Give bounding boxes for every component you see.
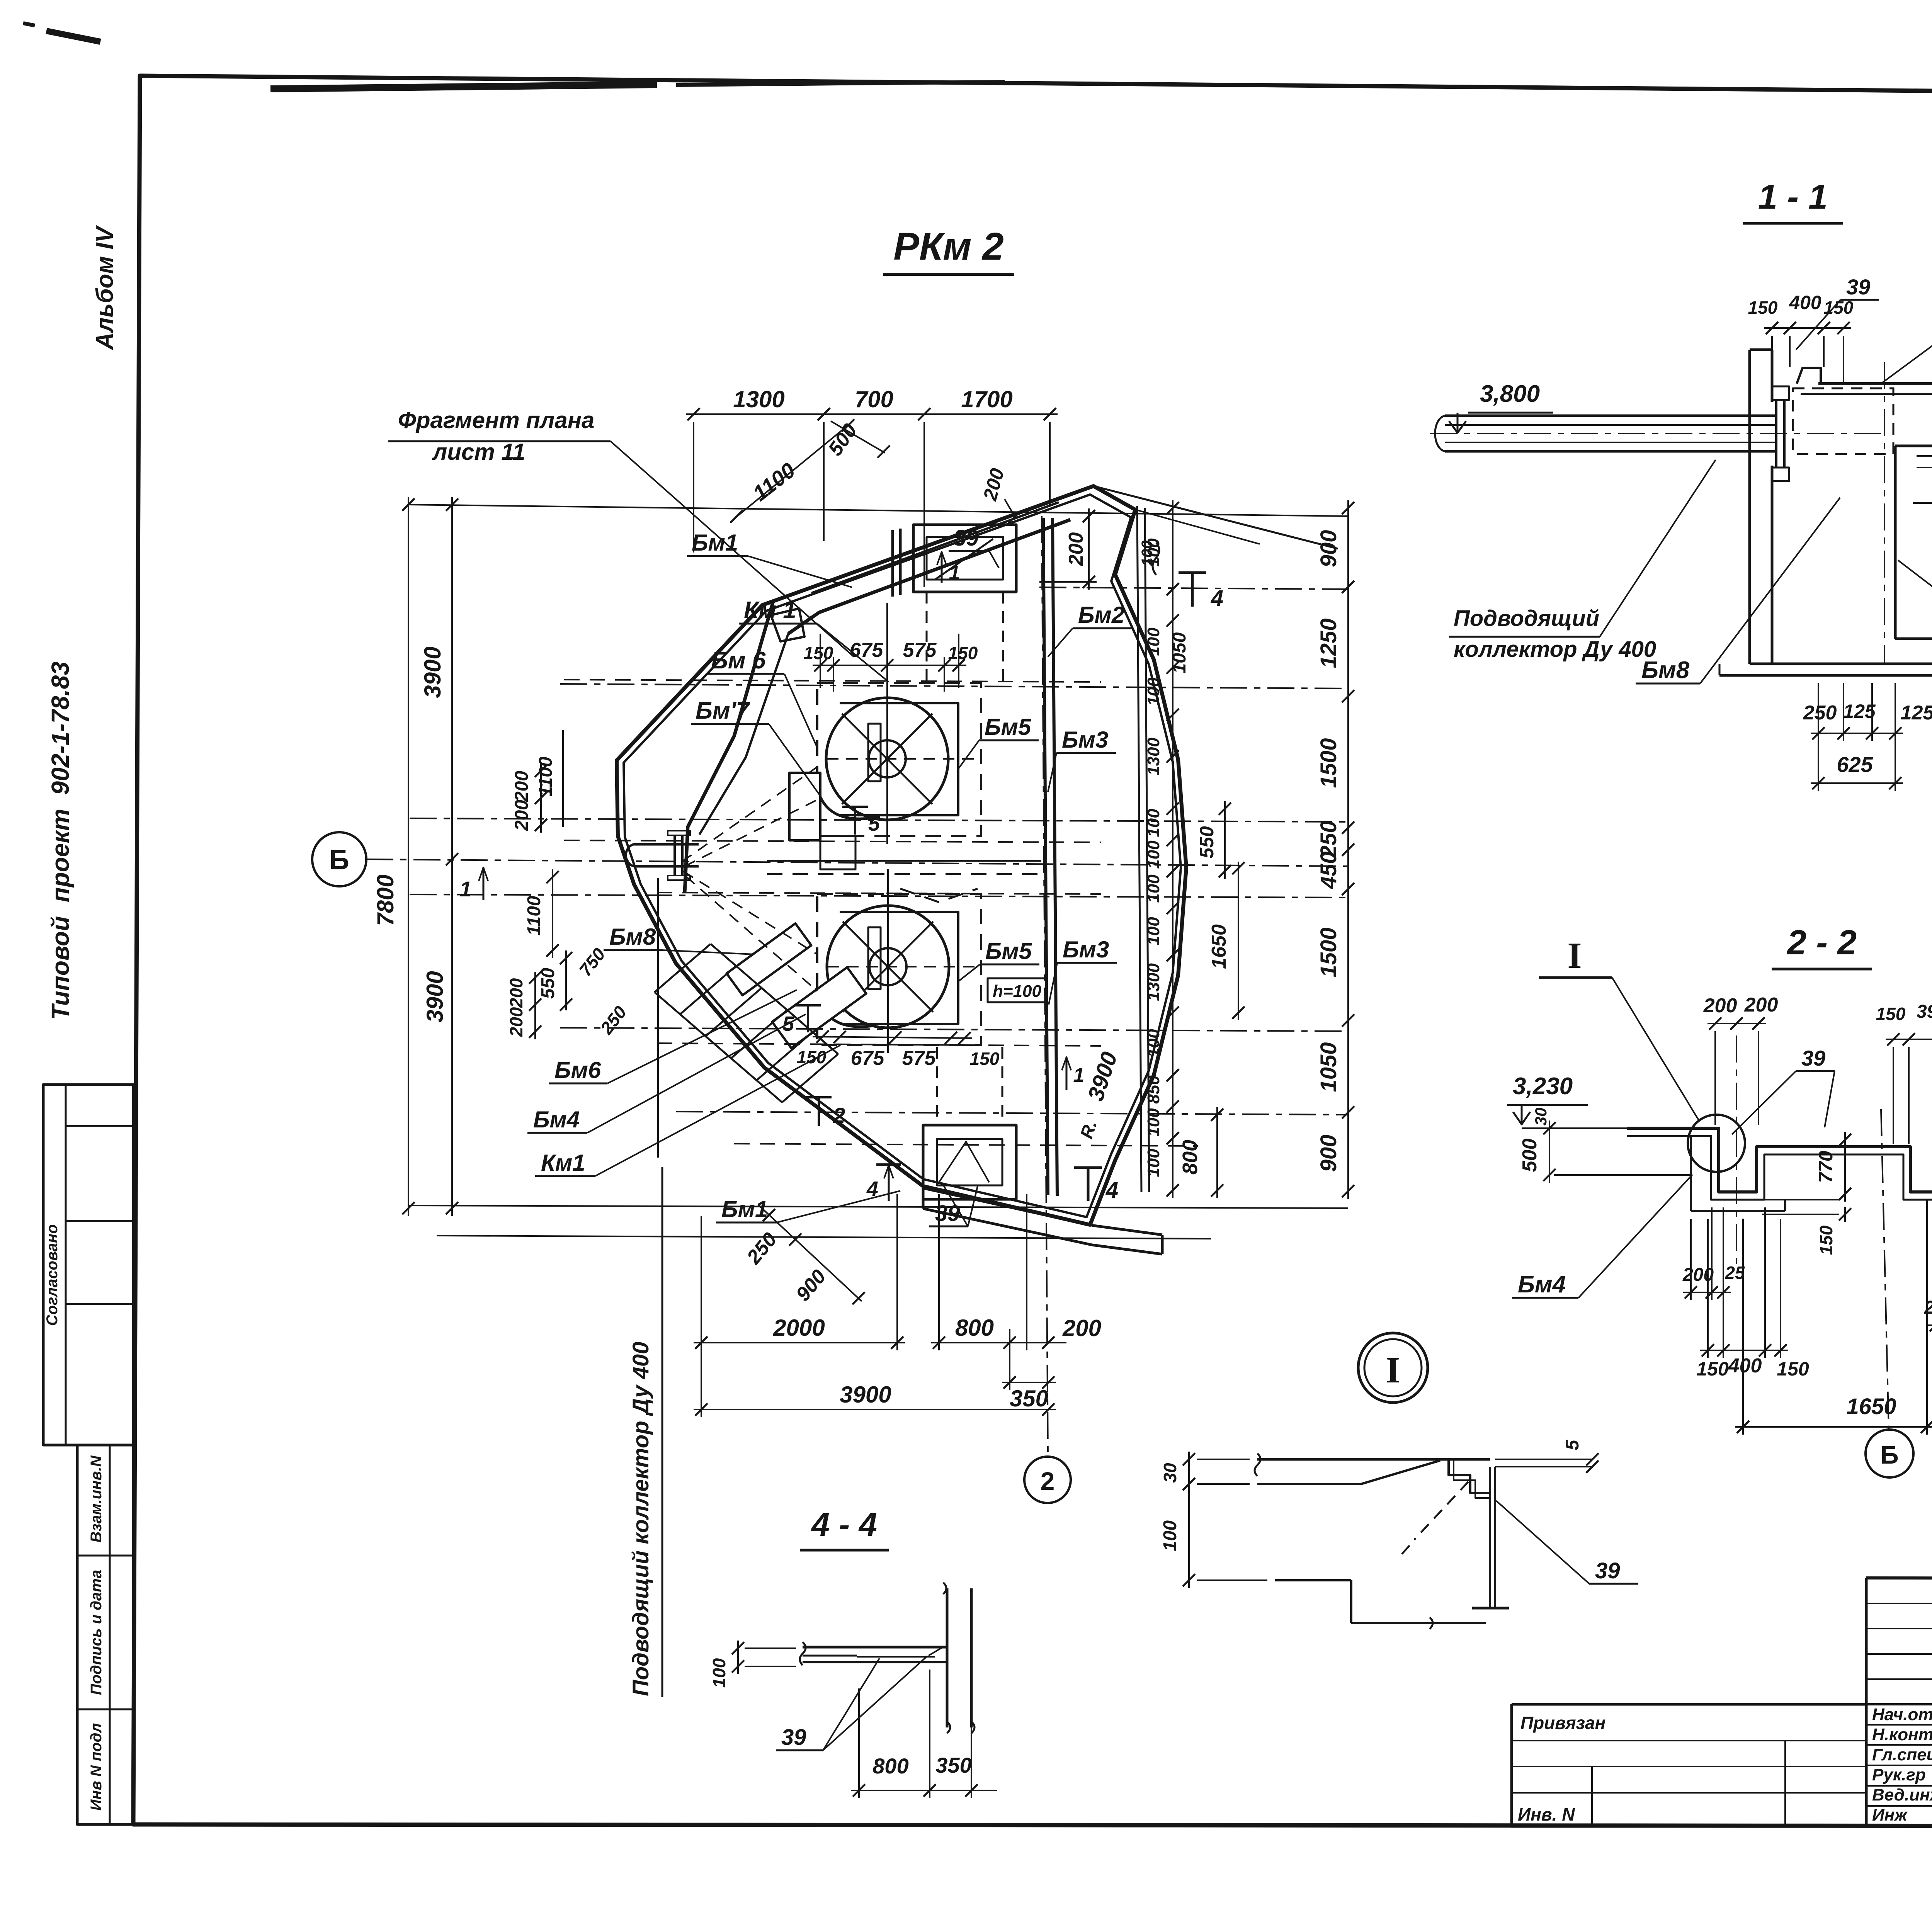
horiz chain 2885	[676, 1112, 1348, 1115]
svg-text:4: 4	[1105, 1178, 1118, 1203]
2-2 left pit	[1691, 1136, 1785, 1211]
right inner dim chain	[1144, 500, 1179, 1198]
plan shell inner wall line	[624, 495, 1181, 1217]
wall Бм3 vertical pair	[1043, 518, 1057, 1196]
svg-text:200: 200	[1744, 994, 1778, 1016]
svg-text:900: 900	[1316, 1135, 1341, 1172]
svg-text:5: 5	[782, 1012, 794, 1035]
1-1 right ext lines	[1913, 384, 1932, 641]
dim 2000	[694, 1315, 905, 1349]
label Бм1 bottom	[716, 1191, 900, 1222]
svg-text:5: 5	[868, 812, 880, 835]
svg-text:1050: 1050	[1316, 1042, 1341, 1092]
title block Привязан box	[1512, 1704, 1866, 1826]
section mark 4 top	[1139, 541, 1223, 611]
horiz chain 2127	[410, 818, 1348, 822]
1-1 level 3.800	[1449, 381, 1553, 433]
2-2 label Бм4	[1512, 1175, 1692, 1298]
svg-text:1: 1	[459, 877, 471, 901]
detail 4-4 dims	[709, 1641, 997, 1798]
horiz ext line top	[408, 505, 1348, 516]
title block grid	[1866, 1578, 1932, 1826]
svg-text:150: 150	[1816, 1225, 1836, 1255]
axis 2 line vertical	[1042, 516, 1048, 1455]
horiz dash room mid2	[657, 893, 1101, 894]
section mark 1 left	[459, 867, 488, 901]
svg-text:39: 39	[1846, 275, 1870, 299]
upper pump room dashed walls	[817, 683, 981, 836]
label Бм5 lower	[958, 938, 1039, 981]
plan shell outer wall	[617, 486, 1186, 1225]
2-2 dims top right	[1876, 1001, 1932, 1189]
axis Б line	[366, 859, 1352, 866]
svg-text:39: 39	[781, 1725, 806, 1750]
svg-text:150: 150	[1876, 1004, 1906, 1024]
left margin box Взам/Подпись/Инв	[77, 1445, 133, 1824]
horiz chain 2669	[560, 1028, 1348, 1031]
svg-text:Инв N подл: Инв N подл	[88, 1723, 105, 1811]
svg-text:200: 200	[1682, 1265, 1714, 1285]
svg-text:770: 770	[1815, 1151, 1837, 1183]
R 3900 label	[1076, 1049, 1122, 1141]
label Км1 lower	[535, 1045, 840, 1176]
detail 4-4 drawing	[800, 1583, 975, 1733]
2-2 label 39	[1732, 1046, 1835, 1134]
upper hatch box 39	[893, 525, 1016, 597]
2-2 profile outer	[1627, 1128, 1932, 1192]
svg-text:150: 150	[1777, 1358, 1809, 1380]
detail I drawing	[1255, 1454, 1592, 1629]
1-1 label Бм3	[1883, 294, 1932, 383]
1-1 inner wall	[1894, 446, 1897, 639]
dashed flow lines	[682, 767, 817, 991]
svg-text:1300: 1300	[733, 386, 784, 412]
svg-text:Бм4: Бм4	[1518, 1271, 1566, 1298]
section mark 1 top	[937, 552, 960, 584]
2-2 profile inner	[1627, 1136, 1932, 1200]
label Км 1 upper	[739, 597, 889, 682]
svg-text:2 - 2: 2 - 2	[1786, 923, 1857, 962]
2-2 axes	[1736, 1035, 1932, 1429]
svg-text:25: 25	[1725, 1263, 1745, 1283]
svg-text:850: 850	[1144, 1075, 1163, 1104]
section 2-2 title	[1772, 923, 1872, 969]
svg-text:200: 200	[506, 1007, 526, 1037]
svg-text:150: 150	[1748, 298, 1778, 318]
svg-text:100: 100	[709, 1658, 729, 1688]
svg-text:100: 100	[1144, 1149, 1163, 1177]
svg-text:4 - 4: 4 - 4	[811, 1506, 877, 1543]
label Бм1 upper	[687, 530, 852, 587]
svg-text:675: 675	[850, 639, 884, 661]
svg-text:1500: 1500	[1316, 738, 1341, 788]
right outer dim chain	[1316, 500, 1354, 1199]
svg-text:Фрагмент плана: Фрагмент плана	[398, 407, 594, 433]
svg-text:Бм3: Бм3	[1063, 937, 1109, 962]
roof beam Бм1 diagonal	[699, 502, 1070, 835]
stairs lower left	[655, 944, 838, 1102]
svg-text:100: 100	[1160, 1520, 1180, 1551]
wall line 2947	[1137, 506, 1149, 1192]
1-1 bottom dims	[1803, 683, 1932, 791]
dims 150 675 575 150 lower	[797, 1030, 1000, 1069]
svg-text:1650: 1650	[1846, 1394, 1896, 1419]
svg-text:Бм5: Бм5	[985, 938, 1032, 964]
horiz ext line bottom	[408, 1205, 1348, 1208]
svg-text:39: 39	[954, 525, 979, 551]
svg-text:Рук.гр: Рук.гр	[1872, 1765, 1926, 1784]
svg-text:100: 100	[1144, 917, 1163, 945]
svg-text:лист 11: лист 11	[432, 439, 526, 465]
svg-text:350: 350	[935, 1753, 971, 1777]
1-1 label 39	[1796, 275, 1879, 350]
upper pump axis lines	[827, 657, 978, 844]
inlet channel block A	[726, 923, 811, 995]
svg-text:Б: Б	[1880, 1440, 1898, 1469]
label Бм 6 upper	[706, 647, 817, 748]
svg-text:Бм 6: Бм 6	[711, 647, 766, 674]
svg-text:Б: Б	[329, 845, 349, 876]
svg-text:Согласовано: Согласовано	[44, 1224, 61, 1326]
label Бм 7 upper	[691, 697, 820, 796]
margin text Типовой проект	[46, 661, 74, 1020]
2-2 bottom dims 150 400 150	[1696, 1207, 1809, 1380]
dims lower left cluster	[506, 869, 631, 1039]
horiz chain 2323	[410, 894, 1348, 898]
svg-text:Взам.инв.N: Взам.инв.N	[88, 1455, 105, 1542]
dim 200 top right	[1039, 508, 1097, 590]
dims 150 675 575 150 upper	[804, 634, 978, 692]
svg-text:Бм3: Бм3	[1062, 727, 1108, 753]
channel dashes below upper box	[927, 592, 1003, 681]
svg-text:200: 200	[506, 978, 526, 1008]
lower pump axis lines	[828, 869, 978, 1053]
svg-text:Бм2: Бм2	[1078, 602, 1124, 628]
svg-text:150: 150	[1696, 1358, 1729, 1380]
svg-text:39: 39	[1595, 1558, 1620, 1583]
dim 3900 upper	[420, 497, 458, 1216]
2-2 left dims	[1519, 1108, 1691, 1183]
2-2 axis Б circle	[1866, 1430, 1913, 1477]
horiz dash low	[734, 1144, 1198, 1146]
axis 2 circle bottom	[1024, 1457, 1071, 1503]
svg-text:390: 390	[1917, 1001, 1932, 1022]
margin text Альбом IV	[92, 225, 118, 350]
horiz dash room top	[564, 680, 1101, 682]
svg-text:150: 150	[797, 1047, 827, 1067]
dim 3900 bottom	[694, 1382, 1056, 1416]
svg-text:675: 675	[851, 1047, 885, 1069]
dim 350	[1002, 1376, 1056, 1411]
svg-text:Подводящий коллектор Ду 400: Подводящий коллектор Ду 400	[628, 1342, 653, 1696]
svg-text:1500: 1500	[1316, 927, 1341, 977]
svg-text:Подпись и дата: Подпись и дата	[88, 1570, 105, 1695]
svg-text:1100: 1100	[536, 757, 556, 797]
axis Б circle left	[312, 832, 366, 886]
title block staff rows	[1872, 1705, 1932, 1824]
horiz dash room bot	[657, 1043, 1101, 1046]
horiz dash room mid	[564, 840, 1101, 842]
1-1 axis vertical	[1884, 362, 1885, 664]
2-2 mid dims	[1762, 1132, 1851, 1255]
svg-text:150: 150	[970, 1049, 1000, 1069]
svg-text:h=100: h=100	[993, 982, 1042, 1001]
label Бм3 lower	[1049, 937, 1117, 1005]
dim 200 bottom	[1010, 1315, 1101, 1349]
svg-text:Типовой проект 902-1-78.83: Типовой проект 902-1-78.83	[46, 661, 74, 1020]
svg-text:575: 575	[902, 1047, 936, 1069]
svg-text:4: 4	[1211, 586, 1223, 611]
svg-text:Нач.отд: Нач.отд	[1872, 1705, 1932, 1724]
svg-text:Бм4: Бм4	[533, 1107, 580, 1132]
section mark 5 lower	[782, 1005, 821, 1035]
small trapezoid marker	[771, 609, 804, 641]
svg-text:3,800: 3,800	[1480, 381, 1540, 407]
svg-text:400: 400	[1728, 1355, 1762, 1377]
label Бм8	[604, 924, 754, 954]
detail I marker circle	[1358, 1333, 1428, 1403]
svg-text:I: I	[1386, 1349, 1400, 1391]
svg-text:500: 500	[1519, 1139, 1541, 1172]
svg-text:Бм1: Бм1	[692, 530, 738, 556]
label Бм2	[1048, 602, 1132, 657]
junction box	[820, 836, 855, 869]
2-2 detail letter I	[1539, 935, 1699, 1121]
1-1 pipe axis	[1430, 433, 1882, 434]
svg-text:200: 200	[1062, 1315, 1101, 1341]
svg-text:2: 2	[1041, 1467, 1055, 1495]
svg-text:39: 39	[1801, 1046, 1825, 1070]
1-1 top slab	[1797, 368, 1932, 399]
collector leader line	[658, 878, 662, 1697]
1-1 pipe collector	[1435, 416, 1777, 451]
svg-text:1050: 1050	[1169, 632, 1190, 673]
section mark 1 mid	[1062, 1057, 1084, 1090]
svg-text:200: 200	[512, 771, 532, 802]
svg-text:200: 200	[512, 800, 532, 831]
svg-text:575: 575	[903, 639, 937, 661]
section mark 2 left	[806, 1097, 845, 1127]
section mark 4 bottom	[1074, 1168, 1118, 1203]
svg-text:200: 200	[1703, 995, 1737, 1017]
svg-text:Бм8: Бм8	[609, 924, 656, 950]
detail I label 39	[1496, 1501, 1638, 1584]
svg-text:3900: 3900	[840, 1382, 891, 1408]
svg-text:Н.контр: Н.контр	[1872, 1725, 1932, 1744]
upper pump volute	[816, 698, 948, 820]
guide rail rect lower	[868, 927, 881, 989]
bottom ext verticals	[701, 1194, 1027, 1417]
2-2 dim 1650 550	[1735, 1200, 1932, 1435]
svg-text:1700: 1700	[961, 386, 1012, 412]
svg-text:1 - 1: 1 - 1	[1758, 178, 1828, 216]
inlet channel block B	[772, 967, 866, 1048]
svg-text:30: 30	[1160, 1463, 1180, 1483]
1-1 right slabs	[1895, 446, 1932, 639]
dim 800 bottom	[931, 1315, 1017, 1349]
svg-text:1300: 1300	[1144, 963, 1163, 1001]
svg-text:100: 100	[1144, 627, 1163, 656]
1-1 label Км1	[1898, 560, 1932, 600]
lower pump volute	[816, 906, 949, 1028]
svg-text:Инж: Инж	[1872, 1806, 1908, 1824]
svg-text:1100: 1100	[524, 896, 544, 936]
svg-text:100: 100	[1144, 677, 1163, 706]
svg-text:700: 700	[855, 386, 893, 412]
dim 200 small top	[979, 466, 1021, 523]
lower outlet box 39	[923, 1125, 1016, 1199]
svg-text:Бм'7: Бм'7	[696, 697, 750, 724]
svg-text:Вед.инж: Вед.инж	[1872, 1785, 1932, 1804]
svg-text:2000: 2000	[773, 1315, 825, 1341]
svg-text:Бм8: Бм8	[1641, 657, 1690, 683]
1-1 collector note	[1449, 460, 1716, 662]
svg-text:коллектор Ду 400: коллектор Ду 400	[1454, 637, 1656, 662]
svg-text:125: 125	[1843, 700, 1876, 722]
svg-text:Гл.спец: Гл.спец	[1872, 1745, 1932, 1764]
1-1 top dims	[1748, 292, 1854, 384]
label Бм4 lower	[527, 1014, 806, 1133]
lower outlet label 39	[929, 1184, 978, 1226]
corridor walls Км1	[767, 861, 1041, 902]
upper hatch label 39	[949, 525, 999, 568]
svg-text:Км 1: Км 1	[744, 597, 796, 624]
scan smudge top edge	[23, 23, 1005, 89]
2-2 level 3.230	[1507, 1073, 1627, 1128]
svg-text:30: 30	[1532, 1108, 1550, 1126]
svg-text:Бм5: Бм5	[985, 714, 1032, 740]
dims 200 200 upper left	[512, 730, 563, 833]
1-1 left wall	[1750, 350, 1772, 664]
svg-text:7800: 7800	[372, 874, 398, 926]
svg-text:1300: 1300	[1144, 738, 1163, 775]
detail 4-4 title	[800, 1506, 889, 1550]
svg-text:3,230: 3,230	[1513, 1073, 1573, 1100]
label Бм6 lower	[549, 990, 797, 1083]
svg-text:200: 200	[1065, 532, 1087, 566]
svg-text:150: 150	[804, 643, 833, 663]
svg-text:550: 550	[1196, 826, 1218, 859]
section mark 4 bottom-left	[866, 1165, 901, 1201]
svg-text:2: 2	[833, 1103, 845, 1127]
svg-text:200: 200	[1924, 1297, 1932, 1318]
svg-text:3900: 3900	[420, 646, 446, 698]
section mark 5 upper	[842, 807, 880, 835]
dim 7800	[372, 497, 415, 1216]
svg-text:100: 100	[1139, 541, 1156, 566]
section 1-1 title	[1743, 178, 1843, 223]
svg-text:450: 450	[1316, 852, 1341, 889]
svg-text:125: 125	[1901, 702, 1932, 724]
inlet pipe	[626, 831, 699, 880]
svg-text:Привязан: Привязан	[1520, 1713, 1605, 1733]
svg-text:1: 1	[1073, 1064, 1085, 1086]
svg-text:100: 100	[1144, 1029, 1163, 1058]
central block rect	[789, 773, 820, 840]
dim 1700	[917, 386, 1058, 420]
svg-text:Км1: Км1	[541, 1150, 585, 1176]
1-1 label Бм8	[1636, 498, 1840, 683]
dim 500 diagonal	[824, 420, 890, 460]
dim 1100 diagonal	[730, 419, 854, 523]
svg-text:900: 900	[1316, 530, 1341, 568]
right chain extras	[1169, 632, 1245, 1198]
svg-text:100: 100	[1144, 874, 1163, 903]
plan bottom skirt band	[923, 1188, 1162, 1254]
horiz ext line skirt	[437, 1236, 1211, 1239]
svg-text:РКм 2: РКм 2	[893, 225, 1004, 268]
svg-text:1250: 1250	[1316, 618, 1341, 668]
dim 700	[816, 386, 932, 420]
svg-text:1650: 1650	[1208, 924, 1230, 969]
1-1 dashed embed box	[1793, 388, 1893, 454]
left margin box Согласовано	[43, 1085, 133, 1445]
detail I dims	[1160, 1439, 1599, 1588]
svg-text:Инв. N: Инв. N	[1518, 1804, 1575, 1824]
svg-text:1: 1	[949, 562, 960, 584]
roof ridge diagonal	[1094, 486, 1338, 549]
svg-text:Бм6: Бм6	[554, 1057, 601, 1083]
1-1 bottom slab	[1719, 657, 1932, 675]
note Фрагмент плана лист 11	[388, 407, 854, 657]
dim ext verticals top	[694, 422, 1050, 657]
collector rotated text	[628, 1342, 653, 1696]
dim 1300	[686, 386, 832, 420]
plan title РКм 2	[883, 225, 1014, 274]
label Бм5 upper	[958, 714, 1039, 769]
svg-text:400: 400	[1789, 292, 1821, 313]
svg-text:Подводящий: Подводящий	[1454, 606, 1599, 631]
horiz chain 1525	[1039, 587, 1348, 589]
2-2 bottom right dims	[1924, 1236, 1932, 1333]
lower pump room dashed walls	[817, 894, 981, 1045]
h=100 box	[988, 978, 1046, 1002]
svg-text:625: 625	[1837, 752, 1873, 777]
1-1 flange	[1772, 386, 1789, 481]
svg-text:100: 100	[1144, 1108, 1163, 1137]
svg-text:800: 800	[872, 1754, 908, 1778]
svg-text:5: 5	[1562, 1439, 1583, 1450]
guide rail rect upper	[868, 724, 881, 781]
svg-text:Бм1: Бм1	[721, 1196, 768, 1222]
channel dashes above lower box	[937, 1047, 1002, 1125]
2-2 dims top left	[1703, 994, 1778, 1125]
2-2 detail circle	[1688, 1115, 1745, 1172]
horiz chain 1782	[560, 684, 1348, 689]
detail 4-4 label 39	[776, 1656, 927, 1750]
svg-text:I: I	[1568, 935, 1582, 976]
svg-text:3900: 3900	[422, 971, 448, 1022]
svg-text:250: 250	[1803, 702, 1837, 724]
svg-text:800: 800	[1179, 1140, 1202, 1175]
svg-text:150: 150	[948, 643, 978, 663]
svg-text:100: 100	[1144, 840, 1163, 869]
svg-text:350: 350	[1010, 1386, 1048, 1411]
svg-text:4: 4	[866, 1177, 878, 1200]
diagonal dims 250 900 skirt	[742, 1205, 865, 1306]
svg-text:100: 100	[1144, 809, 1163, 837]
svg-text:800: 800	[955, 1315, 994, 1341]
inner wall diagonal left	[685, 603, 773, 893]
svg-text:Альбом IV: Альбом IV	[92, 225, 118, 350]
2-2 bottom-left small dims	[1682, 1207, 1745, 1300]
label Бм3 upper	[1048, 727, 1116, 792]
